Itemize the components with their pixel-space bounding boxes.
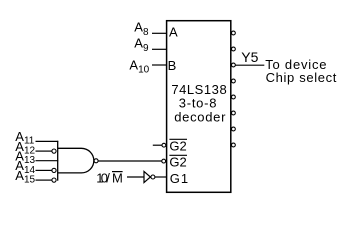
svg-text:3-to-8: 3-to-8 (179, 96, 217, 111)
svg-text:G1: G1 (170, 171, 189, 186)
svg-text:B: B (168, 58, 177, 73)
wire A11 to NAND input 1 (36, 140, 59, 142)
bubble output Y6 (232, 127, 236, 131)
svg-text:G2: G2 (169, 139, 186, 154)
bubble NAND input 4 (52, 168, 56, 172)
overline for second G2 (169, 154, 187, 156)
svg-text:G2: G2 (169, 155, 186, 170)
bubble output Y4 (232, 95, 236, 99)
svg-text:A: A (169, 24, 178, 39)
bubble output Y0 (232, 31, 236, 35)
bubble NAND output (94, 159, 98, 163)
overline for first G2 (169, 138, 187, 140)
bubble output Y3 (232, 79, 236, 83)
svg-text:decoder: decoder (174, 109, 226, 124)
NAND gate U2 back bar (57, 141, 59, 181)
svg-text:10/M: 10/M (96, 170, 123, 185)
bubble output Y5 (232, 63, 236, 67)
wire stub to G2 pin (first) (153, 144, 162, 146)
bubble NAND input 5 (52, 178, 56, 182)
decoder U1 74LS138 body (167, 21, 231, 193)
wire 10/M to inverter (127, 176, 144, 178)
wire A8 to pin A (152, 32, 167, 34)
wire A14 to NAND input 4 bubble (36, 169, 52, 171)
bubble output Y5b (232, 111, 236, 115)
wire Y5 (236, 64, 265, 66)
svg-text:Y5: Y5 (241, 49, 258, 65)
bubble output Y1 (232, 47, 236, 51)
wire A10 to pin B (152, 64, 167, 66)
wire NAND output to G2 pin (second) (98, 160, 162, 162)
inverter U3 triangle (144, 171, 150, 182)
wire inverter to G1 pin (155, 176, 167, 178)
bubble inverter output (151, 175, 155, 179)
svg-text:74LS138: 74LS138 (171, 82, 227, 97)
svg-text:Chip select: Chip select (266, 70, 337, 85)
bubble output Y7 (232, 143, 236, 147)
bubble G2 pin (first) (162, 143, 166, 147)
NAND gate U2 body (58, 148, 94, 173)
overline over M (112, 171, 123, 173)
wire A15 to NAND input 5 bubble (36, 179, 52, 181)
wire A9 to decoder (152, 48, 167, 50)
bubble NAND input 2 (52, 149, 56, 153)
bubble G2 pin (second) (162, 159, 166, 163)
wire A13 to NAND input 3 (36, 160, 59, 162)
wire A12 to NAND input 2 bubble (36, 150, 52, 152)
